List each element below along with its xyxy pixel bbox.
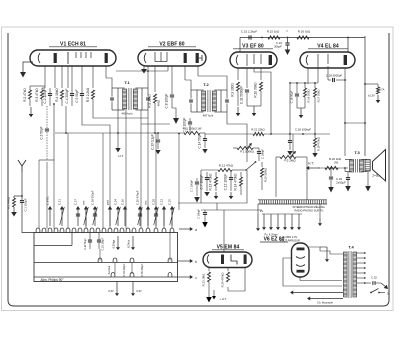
- svg-text:Pu 6,3Vtge: Pu 6,3Vtge: [264, 234, 278, 237]
- wire to V5 grid: [223, 210, 225, 252]
- svg-text:R.16 1kΩ: R.16 1kΩ: [298, 30, 311, 34]
- wire V4 pins down: [290, 66, 345, 156]
- mains switch: [370, 289, 389, 296]
- svg-text:C.32: C.32: [371, 276, 377, 280]
- svg-text:2x50µF: 2x50µF: [336, 181, 346, 185]
- svg-text:C.15 2,2kpF: C.15 2,2kpF: [241, 30, 258, 34]
- ground below R2: [29, 107, 34, 117]
- capacitor across T2 secondary: [221, 90, 229, 112]
- transformer T4: [343, 245, 356, 299]
- resistor R12 47k: [201, 164, 246, 172]
- capacitor C12 100kpF: [224, 172, 234, 191]
- bank cap C32 5kpF: [84, 233, 92, 250]
- svg-text:R.20 100kΩ: R.20 100kΩ: [264, 168, 268, 182]
- svg-text:RADIO-PHONO SUR P.1: RADIO-PHONO SUR P.1: [294, 208, 324, 212]
- bank inner verticals: [100, 233, 170, 275]
- svg-text:T.4: T.4: [348, 245, 354, 250]
- svg-text:Secteur: Secteur: [108, 266, 111, 275]
- svg-text:T.2: T.2: [203, 82, 209, 87]
- resistor R9 100: [231, 82, 240, 106]
- svg-text:C.23: C.23: [160, 199, 164, 205]
- svg-text:R.18 470kΩ: R.18 470kΩ: [317, 137, 321, 151]
- resistor R8 22k: [148, 94, 161, 110]
- svg-text:C.25: C.25: [168, 199, 172, 205]
- wire V6 left side: [283, 258, 342, 286]
- ground below C19: [328, 187, 334, 193]
- capacitor across T1 primary: [110, 88, 118, 110]
- resistor R22 1k: [325, 157, 342, 170]
- svg-text:C.18 100kpF: C.18 100kpF: [295, 128, 311, 132]
- svg-text:R.17 10kΩ: R.17 10kΩ: [317, 90, 321, 103]
- trimmer caps: [76, 214, 158, 216]
- ground below R13: [214, 192, 219, 199]
- wire taps to fuse: [365, 282, 371, 284]
- capacitor C8 100pF: [165, 94, 175, 109]
- wire V2 pins: [155, 66, 227, 94]
- wire antenna to bank: [22, 230, 34, 233]
- wire antenna step left: [39, 103, 55, 160]
- tube V6 EZ 80: [260, 237, 309, 278]
- resistor R23 1M: [202, 272, 211, 297]
- bank inner arrow 6,3V a: [113, 236, 121, 250]
- svg-text:R.22 1kΩ: R.22 1kΩ: [329, 157, 342, 161]
- wire P2 ends: [276, 156, 307, 158]
- ground below C8: [172, 108, 179, 124]
- T2 frequency label: [203, 114, 214, 118]
- trimmer labels: [46, 190, 172, 205]
- wire V1 pins down: [45, 66, 93, 88]
- svg-text:C.5 50pF: C.5 50pF: [75, 89, 79, 102]
- wire V4 grid rail: [289, 82, 318, 134]
- svg-text:Pu: Pu: [260, 209, 264, 213]
- svg-text:487 kc/s: 487 kc/s: [203, 114, 214, 118]
- wire bottom detector: [178, 203, 262, 210]
- svg-text:C.1 100pF: C.1 100pF: [24, 198, 28, 211]
- svg-text:R.3 47kΩ: R.3 47kΩ: [35, 88, 39, 102]
- svg-text:Alim. Philips 90°: Alim. Philips 90°: [40, 278, 64, 282]
- bank below arrows: [108, 282, 119, 297]
- svg-text:R.9 100Ω: R.9 100Ω: [231, 83, 235, 97]
- svg-text:C.9 100pF: C.9 100pF: [183, 118, 187, 133]
- wire HT line to T3: [318, 167, 348, 169]
- bank arrow c: [178, 275, 198, 280]
- bank mid contact loops: [98, 258, 172, 263]
- svg-text:C.31 10kpF: C.31 10kpF: [102, 237, 105, 250]
- wire y124 under T1: [141, 123, 170, 125]
- tube V2 EBF 80: [138, 42, 206, 67]
- fuse C32: [371, 276, 381, 285]
- svg-text:HAUT-PARLEUR: HAUT-PARLEUR: [280, 239, 300, 243]
- antenna: [18, 160, 26, 198]
- resistor stub right rail: [364, 83, 379, 94]
- bank cap C31 10kpF: [97, 233, 105, 251]
- svg-text:C.32 5kpF: C.32 5kpF: [84, 238, 87, 250]
- wire stub y123: [344, 122, 366, 124]
- svg-text:T.3: T.3: [354, 150, 360, 155]
- resistor R3 47k: [35, 88, 45, 106]
- inner schematic border: [8, 33, 389, 306]
- ground below C bottom: [202, 222, 208, 228]
- wire speaker ground: [365, 171, 371, 192]
- svg-text:R.13 470kΩ: R.13 470kΩ: [209, 173, 213, 191]
- svg-text:Ch. fécample: Ch. fécample: [317, 301, 333, 305]
- capacitor C2 100pF: [43, 88, 52, 106]
- wire V6 anode top: [309, 247, 320, 251]
- wire V6 to T4 primary: [320, 251, 343, 254]
- ground below C7b: [194, 197, 200, 203]
- capacitor C5 50pF: [75, 88, 84, 106]
- capacitor C13 0,1uF: [151, 133, 161, 150]
- svg-text:C.12 100pF: C.12 100pF: [224, 174, 228, 191]
- wire AVC bus: [55, 132, 205, 134]
- capacitor C15 2,2kpF: [241, 30, 258, 40]
- ground below C20: [345, 186, 351, 192]
- svg-text:6,3V: 6,3V: [108, 289, 114, 293]
- wire bus with inline R21: [205, 128, 330, 136]
- svg-text:400Ω: 400Ω: [157, 100, 161, 106]
- wire inter-tube bus y71: [116, 66, 168, 88]
- svg-text:C.11 5000pF: C.11 5000pF: [240, 86, 244, 104]
- capacitor across T1 secondary: [142, 88, 150, 110]
- capacitor C9 100pF: [183, 118, 193, 133]
- wire V1 anode to T1: [106, 66, 118, 133]
- ground below R10: [247, 106, 261, 116]
- P2 wiper arrow: [290, 151, 296, 157]
- bank top contact loops: [36, 228, 174, 233]
- svg-text:R.21 22kΩ: R.21 22kΩ: [251, 128, 264, 132]
- svg-text:C.35 25kpF: C.35 25kpF: [141, 263, 144, 276]
- svg-text:6,3V: 6,3V: [136, 289, 142, 293]
- svg-text:S: S: [387, 292, 389, 296]
- switch bank box: [34, 233, 178, 282]
- resistor R24 470k: [221, 272, 230, 287]
- svg-text:C.24: C.24: [114, 199, 118, 205]
- svg-text:0,7A: 0,7A: [379, 88, 385, 92]
- capacitor C20: [346, 172, 350, 187]
- ground left of V1: [20, 62, 33, 78]
- ground below C18b: [287, 151, 292, 155]
- svg-text:b.13V: b.13V: [368, 94, 375, 98]
- transformer T2: [197, 82, 221, 112]
- svg-text:C.ORD 2.0V: C.ORD 2.0V: [283, 235, 298, 239]
- ground below C7: [204, 192, 209, 196]
- wire V3 pins down: [238, 68, 271, 134]
- svg-text:R.4 18kΩ: R.4 18kΩ: [55, 88, 59, 102]
- capacitor across T2 primary: [189, 90, 197, 112]
- P1 wiper arrow: [246, 143, 252, 149]
- resistor R1 47k: [7, 196, 16, 209]
- capacitor C7b 100pF: [190, 134, 200, 196]
- supply arrows cluster: [262, 214, 302, 243]
- svg-text:T.1: T.1: [124, 80, 130, 85]
- wire P1 left into U loop: [233, 148, 237, 150]
- HT feed arrow: [115, 133, 124, 158]
- svg-text:C.31: C.31: [58, 199, 62, 205]
- svg-text:C.13 0,1µF: C.13 0,1µF: [151, 134, 155, 150]
- wire V5 pins: [209, 268, 245, 292]
- capacitor C3 50pF osc: [40, 106, 50, 160]
- wire V5 bottom HT: [212, 290, 227, 301]
- ground below C16: [285, 46, 291, 56]
- svg-text:=: =: [286, 30, 288, 34]
- wire detector U loop: [201, 170, 247, 203]
- resistor R18 470k: [314, 134, 321, 152]
- resistor R10 39k: [254, 82, 263, 106]
- svg-text:R.1 47kΩ: R.1 47kΩ: [7, 197, 11, 209]
- capacitor C19 2x50uF: [329, 168, 346, 187]
- wire rail x287: [275, 157, 277, 197]
- capacitor C1 100pF: [20, 198, 28, 230]
- contact strip hatched: [258, 200, 327, 204]
- capacitor C7 100pF: [200, 172, 210, 191]
- HT left arrow: [306, 162, 320, 171]
- bank partial top strip line: [34, 233, 72, 246]
- bank inner arrow 6,3V b: [128, 236, 136, 250]
- svg-text:20kpF: 20kpF: [274, 45, 282, 49]
- wire T2 secondary to detector: [227, 112, 247, 162]
- svg-text:6,3Vca: 6,3Vca: [128, 240, 131, 248]
- wire T3 secondary down: [344, 168, 346, 172]
- svg-text:C.14 50pF: C.14 50pF: [198, 134, 202, 149]
- svg-text:460 kc/s: 460 kc/s: [121, 112, 133, 116]
- wire V6 bottom: [300, 277, 342, 281]
- resistor R13 470k: [209, 172, 218, 191]
- svg-text:C.28 500pF: C.28 500pF: [91, 190, 95, 205]
- capacitor C bottom 10kpF: [197, 209, 208, 222]
- Pu arrow left: [256, 204, 264, 231]
- ground below R1: [11, 207, 17, 217]
- svg-text:C.7 100pF: C.7 100pF: [200, 175, 204, 190]
- svg-text:C.7 100pF: C.7 100pF: [190, 180, 194, 193]
- svg-text:H.T.: H.T.: [308, 162, 314, 166]
- svg-text:R.10 39kΩ: R.10 39kΩ: [254, 82, 258, 98]
- tourne disque text: [264, 234, 278, 237]
- resistor R11 100k inline: [183, 127, 202, 135]
- svg-text:C.2 100pF: C.2 100pF: [43, 89, 47, 104]
- svg-text:2W: 2W: [334, 161, 338, 165]
- wire rail x179 down: [178, 134, 180, 210]
- wire HT rail right vertical: [364, 36, 366, 156]
- alim philips label: [40, 278, 64, 282]
- svg-text:pad: pad: [106, 200, 110, 205]
- ground below R9: [236, 107, 241, 116]
- wire antenna branch: [14, 195, 23, 197]
- svg-text:C.3 50pF: C.3 50pF: [40, 126, 44, 139]
- ground V2 cathode: [141, 66, 147, 74]
- wire R8 bottom down: [154, 110, 156, 133]
- ground below R23: [206, 297, 212, 303]
- ground below cathode net: [297, 108, 305, 118]
- svg-text:R.24 470kΩ: R.24 470kΩ: [221, 273, 225, 288]
- svg-text:C 10kpF: C 10kpF: [261, 149, 265, 160]
- potentiometer P2 2M: [280, 134, 296, 163]
- capacitor C18 5000pF: [326, 74, 346, 83]
- svg-text:P.2 2MΩ: P.2 2MΩ: [284, 159, 296, 163]
- resistor R17 10k: [314, 82, 321, 134]
- ground near T4: [320, 247, 329, 262]
- capacitor C16 20kpF: [274, 38, 289, 49]
- svg-text:C.27: C.27: [74, 199, 78, 205]
- resistor R14 470k: [234, 172, 243, 195]
- resistor R4 18k: [55, 88, 64, 106]
- resistor R20 100k: [261, 162, 268, 190]
- resistor R2 47k: [23, 86, 45, 106]
- mains label: [317, 301, 333, 305]
- svg-text:b: b: [195, 260, 197, 264]
- tube V1 ECH 81: [30, 42, 116, 67]
- speaker: [365, 150, 386, 182]
- T4 secondary taps: [357, 252, 366, 284]
- svg-text:osc: osc: [82, 200, 86, 205]
- svg-text:C.V.OL: C.V.OL: [46, 196, 50, 205]
- svg-text:C.30 47kpF: C.30 47kpF: [136, 190, 140, 205]
- capacitor C14 50pF: [198, 133, 208, 148]
- mains arrow right: [381, 283, 388, 289]
- tube V4 EL 84: [300, 44, 355, 69]
- transformer T1 460kc: [118, 80, 142, 116]
- svg-text:R.5 2,2kΩ: R.5 2,2kΩ: [86, 87, 90, 102]
- capacitor C18b 100kpF: [288, 128, 311, 150]
- svg-text:C.4 200pF: C.4 200pF: [65, 89, 69, 104]
- wire long verticals to bank: [39, 110, 172, 229]
- capacitor C4 200pF: [65, 88, 74, 106]
- resistor R15 1k: [267, 30, 280, 40]
- svg-text:Z=5Ω: Z=5Ω: [372, 174, 380, 178]
- svg-text:C.34 10kpF: C.34 10kpF: [123, 263, 126, 276]
- svg-text:C 10kpF: C 10kpF: [197, 209, 201, 219]
- svg-text:R.12 47kΩ: R.12 47kΩ: [219, 164, 234, 168]
- svg-text:C.18 5000pF: C.18 5000pF: [326, 74, 342, 78]
- resistor R5 2,2k: [86, 87, 95, 106]
- ground below C12: [229, 192, 234, 199]
- ground below C13: [155, 150, 160, 154]
- wire top B+ rail: [240, 30, 365, 53]
- svg-text:6,3Vtge: 6,3Vtge: [113, 239, 116, 248]
- svg-text:P.1 500kΩ: P.1 500kΩ: [240, 150, 254, 154]
- svg-text:osc: osc: [144, 200, 148, 205]
- svg-text:R.16 100Ω: R.16 100Ω: [307, 90, 311, 103]
- transformer T3: [345, 150, 367, 173]
- bank lower contact loops: [111, 272, 172, 277]
- wire rail x307 down: [306, 157, 308, 200]
- svg-text:H.T.: H.T.: [118, 154, 124, 158]
- svg-text:C.8 100pF: C.8 100pF: [165, 94, 169, 109]
- svg-text:C.29: C.29: [152, 199, 156, 205]
- svg-text:R.8 22kΩ: R.8 22kΩ: [148, 94, 152, 108]
- ground below right stub: [368, 88, 385, 104]
- tube V3 EF 80: [230, 44, 277, 69]
- svg-text:C.16 50µF: C.16 50µF: [290, 90, 294, 103]
- mains arrows left: [290, 291, 343, 301]
- capacitor C11 5000pF: [240, 86, 250, 106]
- capacitor C16b 50uF cathode: [290, 82, 300, 108]
- svg-text:R.23 1MΩ: R.23 1MΩ: [202, 274, 206, 287]
- capacitor C 10kpF after P1: [253, 148, 265, 161]
- wire grid staircase: [66, 106, 148, 133]
- svg-text:C.26: C.26: [121, 199, 125, 205]
- arrow right of strip: [318, 204, 322, 226]
- svg-text:R.2 47kΩ: R.2 47kΩ: [23, 88, 27, 102]
- interrupteur melangeur text block: [293, 204, 326, 213]
- bank lower component labels: [108, 263, 144, 276]
- potentiometer P1 500k: [237, 134, 255, 154]
- svg-text:R.14 470kΩ: R.14 470kΩ: [234, 173, 238, 191]
- bank arrow a: [179, 227, 197, 232]
- svg-text:+ H.T.: + H.T.: [219, 297, 227, 301]
- switch contact diagonal: [245, 161, 256, 171]
- tube V5 EM 84: [203, 245, 252, 268]
- trimmer arrows tuning: [48, 206, 175, 226]
- ground below C14: [202, 149, 207, 153]
- bank arrow b: [178, 259, 198, 264]
- ground below R18: [312, 152, 317, 157]
- resistor R16 1k: [297, 30, 311, 40]
- resistor R16b 100: [304, 82, 311, 108]
- svg-text:a: a: [195, 228, 197, 232]
- svg-text:R.15 1kΩ: R.15 1kΩ: [267, 30, 280, 34]
